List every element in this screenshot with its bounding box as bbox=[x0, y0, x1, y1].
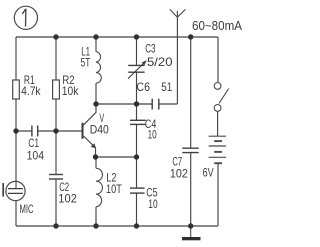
svg-text:5/20: 5/20 bbox=[147, 55, 173, 69]
capacitor C5 bbox=[130, 188, 145, 193]
node C7 top bbox=[188, 34, 193, 39]
svg-text:4.7k: 4.7k bbox=[21, 84, 41, 98]
inductor L1 bbox=[96, 52, 101, 84]
capacitor C1 bbox=[32, 126, 38, 137]
node C5 bottom bbox=[134, 223, 139, 228]
node R2 top bbox=[53, 34, 58, 39]
wire switch to battery bbox=[217, 111, 219, 136]
wire C7 branch bbox=[190, 37, 192, 226]
wire L1 branch bbox=[95, 37, 97, 104]
microphone MIC bbox=[3, 181, 34, 215]
node tank left bbox=[93, 101, 98, 106]
svg-text:60~80mA: 60~80mA bbox=[192, 18, 242, 33]
switch S bbox=[214, 83, 228, 112]
wire emitter node horizontal bbox=[96, 156, 137, 158]
svg-text:10: 10 bbox=[148, 197, 158, 211]
antenna bbox=[170, 9, 186, 17]
svg-text:5T: 5T bbox=[81, 56, 91, 70]
transistor V D40 bbox=[83, 104, 110, 157]
capacitor C6 bbox=[152, 99, 159, 110]
resistor R1 bbox=[13, 80, 20, 99]
wire tank node horizontal bbox=[96, 103, 137, 105]
svg-text:C3: C3 bbox=[145, 41, 156, 55]
callout circle 1 bbox=[14, 6, 37, 29]
node base R2 bbox=[53, 128, 58, 133]
node emitter bbox=[93, 154, 98, 159]
ground bbox=[190, 226, 192, 237]
node L1 top bbox=[93, 34, 98, 39]
node ground bbox=[188, 223, 193, 228]
wire C3 C4 C5 chain bbox=[136, 37, 138, 226]
inductor L2 bbox=[96, 168, 102, 207]
svg-text:10k: 10k bbox=[62, 84, 79, 98]
digit 1 in callout bbox=[22, 9, 26, 27]
wire C6 horizontal bbox=[137, 103, 178, 105]
svg-text:102: 102 bbox=[58, 191, 77, 205]
wire left border bbox=[15, 37, 17, 226]
wire bottom rail bbox=[16, 225, 218, 227]
svg-text:51: 51 bbox=[161, 80, 172, 94]
node tank right bbox=[134, 101, 139, 106]
node base left bbox=[13, 128, 18, 133]
capacitor C2 bbox=[49, 175, 63, 180]
svg-text:10T: 10T bbox=[106, 182, 122, 196]
node C2 bottom bbox=[53, 223, 58, 228]
node C4 C5 bbox=[134, 154, 139, 159]
wire R2 branch bbox=[55, 37, 57, 131]
wire battery to bottom rail bbox=[217, 163, 219, 226]
svg-text:C6: C6 bbox=[136, 80, 150, 94]
svg-text:6V: 6V bbox=[203, 166, 214, 180]
resistor R2 bbox=[53, 80, 60, 99]
wire C2 branch bbox=[55, 131, 57, 226]
wire top rail bbox=[16, 36, 218, 38]
svg-text:10: 10 bbox=[148, 128, 157, 142]
node C3 top bbox=[134, 34, 139, 39]
battery 6V bbox=[209, 136, 226, 163]
svg-text:MIC: MIC bbox=[20, 202, 34, 216]
capacitor C7 bbox=[182, 148, 198, 152]
capacitor C3 variable bbox=[128, 65, 144, 72]
wire antenna feed bbox=[176, 11, 178, 104]
svg-text:D40: D40 bbox=[90, 122, 109, 136]
svg-text:104: 104 bbox=[27, 148, 45, 162]
node L2 bottom bbox=[93, 223, 98, 228]
wire base line bbox=[16, 130, 82, 132]
wire right rail to switch bbox=[217, 37, 219, 82]
svg-text:102: 102 bbox=[170, 166, 188, 180]
capacitor C4 bbox=[130, 120, 146, 124]
wire L2 branch bbox=[95, 157, 97, 226]
